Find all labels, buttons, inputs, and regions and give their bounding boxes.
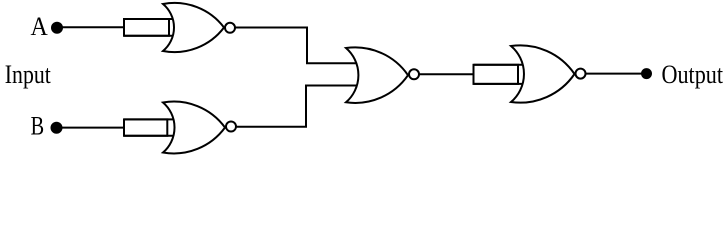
wire gate3 output to rect3 — [419, 73, 474, 75]
wire rect3 input pair — [474, 65, 531, 84]
inversion bubble of U3 — [409, 69, 419, 79]
output terminal dot — [641, 68, 652, 79]
svg-text:A: A — [31, 12, 49, 41]
wire B input — [56, 127, 124, 129]
svg-text:Output: Output — [662, 60, 724, 89]
input-tie rectangle of U2 — [124, 119, 167, 135]
node A terminal dot — [51, 22, 63, 34]
node B terminal dot — [51, 122, 63, 134]
wire A input — [57, 26, 124, 28]
inversion bubble of U4 — [576, 69, 586, 79]
wire gate1 output to gate3 top input — [235, 28, 362, 64]
nor-gate U2 bottom — [163, 102, 225, 154]
input-tie rectangle of U1 — [124, 19, 169, 36]
svg-text:B: B — [31, 112, 44, 141]
nor-gate U3 middle — [346, 47, 408, 103]
nor-gate U4 right — [511, 45, 575, 102]
wire gate2 output to gate3 bottom input — [236, 86, 362, 127]
wire rect2 input pair — [124, 119, 180, 135]
inversion bubble of U2 — [226, 122, 236, 132]
inversion bubble of U1 — [225, 23, 235, 33]
wire rect1 input pair — [124, 19, 180, 36]
wire gate4 output — [585, 73, 646, 75]
svg-text:Input: Input — [5, 60, 52, 89]
input-tie rectangle of U4 — [474, 65, 519, 84]
nor-gate U1 top — [163, 3, 224, 52]
